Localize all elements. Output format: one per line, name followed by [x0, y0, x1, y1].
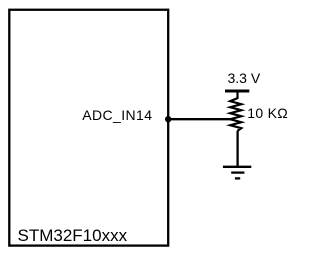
ground symbol — [223, 167, 251, 179]
svg-text:ADC_IN14: ADC_IN14 — [82, 107, 152, 123]
svg-text:3.3 V: 3.3 V — [228, 70, 261, 86]
resistor R 10K zigzag — [230, 91, 241, 131]
svg-text:10 KΩ: 10 KΩ — [247, 105, 288, 121]
power rail 3.3V bar — [225, 89, 249, 92]
wire ADC_IN14 pin to resistor — [167, 118, 232, 120]
wire resistor to ground — [236, 131, 238, 167]
IC U1 STM32F10xxx body — [9, 10, 168, 246]
junction dot on ADC_IN14 pin — [165, 116, 171, 122]
svg-text:STM32F10xxx: STM32F10xxx — [18, 226, 128, 245]
